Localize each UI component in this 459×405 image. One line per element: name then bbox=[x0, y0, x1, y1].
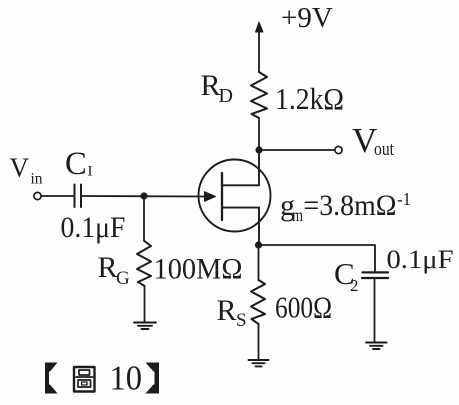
resistor RD bbox=[251, 72, 267, 118]
label 0.1µF left bbox=[61, 211, 126, 244]
capacitor C1 bbox=[75, 185, 82, 208]
label +9V bbox=[281, 2, 333, 34]
label 1.2kΩ bbox=[275, 82, 344, 116]
power arrow bbox=[256, 22, 264, 72]
svg-text:Vout: Vout bbox=[352, 121, 395, 160]
label RG bbox=[98, 251, 131, 289]
ground C2 bbox=[366, 343, 387, 350]
figure caption bracket left bbox=[45, 363, 58, 394]
node source junction bbox=[255, 241, 262, 248]
resistor RG bbox=[137, 241, 151, 286]
wire source to RS bbox=[258, 245, 260, 280]
resistor RS bbox=[251, 280, 265, 324]
svg-text:RG: RG bbox=[98, 251, 131, 289]
figure caption number 10 bbox=[110, 360, 143, 398]
terminal Vout bbox=[335, 146, 342, 153]
label gm=3.8mΩ⁻¹ bbox=[280, 189, 411, 225]
svg-text:1.2kΩ: 1.2kΩ bbox=[275, 82, 344, 116]
svg-text:+9V: +9V bbox=[281, 2, 333, 34]
svg-text:C2: C2 bbox=[334, 256, 359, 295]
wire source node to C2 bbox=[259, 245, 376, 272]
svg-text:RS: RS bbox=[217, 294, 247, 331]
svg-text:CI: CI bbox=[65, 146, 93, 182]
label Vin bbox=[10, 153, 43, 188]
figure caption character 圖 bbox=[74, 367, 95, 392]
label 0.1µF right bbox=[387, 244, 454, 274]
svg-text:100MΩ: 100MΩ bbox=[154, 253, 243, 286]
wire drain rail bbox=[258, 118, 260, 150]
ground RS bbox=[249, 360, 269, 366]
terminal Vin bbox=[34, 192, 41, 199]
label RD bbox=[201, 69, 233, 107]
wire Vin to C1 bbox=[42, 195, 74, 197]
label C1 bbox=[65, 146, 93, 182]
wire C2 to ground bbox=[374, 278, 376, 342]
figure caption bracket right bbox=[146, 363, 160, 394]
svg-text:600Ω: 600Ω bbox=[275, 290, 332, 325]
label 100MΩ bbox=[154, 253, 243, 286]
wire C1 to gate bbox=[82, 195, 205, 198]
ground RG bbox=[134, 323, 156, 330]
svg-text:gm=3.8mΩ-1: gm=3.8mΩ-1 bbox=[280, 189, 411, 225]
label 600Ω bbox=[275, 290, 332, 325]
wire junction to RG bbox=[143, 196, 145, 241]
wire to Vout bbox=[259, 149, 334, 151]
wire RS to ground bbox=[258, 324, 260, 360]
label C2 bbox=[334, 256, 359, 295]
label Vout bbox=[352, 121, 395, 160]
svg-text:RD: RD bbox=[201, 69, 233, 107]
node gate junction bbox=[140, 192, 147, 199]
svg-text:10: 10 bbox=[110, 360, 143, 398]
svg-text:0.1μF: 0.1μF bbox=[387, 244, 454, 274]
node drain junction bbox=[255, 146, 262, 153]
JFET Q1 bbox=[199, 150, 271, 245]
capacitor C2 bbox=[362, 272, 388, 278]
wire RG to ground bbox=[144, 286, 146, 322]
svg-text:Vin: Vin bbox=[10, 153, 43, 188]
svg-text:0.1μF: 0.1μF bbox=[61, 211, 126, 244]
label RS bbox=[217, 294, 247, 331]
